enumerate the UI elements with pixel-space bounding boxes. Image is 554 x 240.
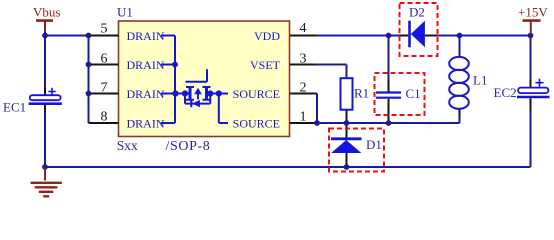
svg-text:2: 2 — [300, 80, 307, 95]
svg-text:DRAIN: DRAIN — [127, 58, 165, 72]
svg-text:VDD: VDD — [254, 29, 280, 43]
svg-text:1: 1 — [300, 110, 307, 125]
svg-text:DRAIN: DRAIN — [127, 29, 165, 43]
svg-text:SOURCE: SOURCE — [233, 87, 280, 101]
svg-text:L1: L1 — [473, 73, 487, 88]
svg-text:8: 8 — [101, 110, 108, 125]
svg-text:Sxx: Sxx — [117, 138, 138, 153]
svg-text:5: 5 — [101, 22, 108, 37]
svg-text:/SOP-8: /SOP-8 — [166, 139, 211, 154]
svg-text:VSET: VSET — [250, 58, 281, 72]
svg-text:C1: C1 — [406, 86, 421, 101]
svg-text:7: 7 — [101, 80, 108, 95]
svg-text:R1: R1 — [354, 86, 369, 101]
svg-text:4: 4 — [300, 21, 307, 36]
svg-text:U1: U1 — [117, 5, 133, 20]
svg-text:DRAIN: DRAIN — [127, 87, 165, 101]
svg-text:SOURCE: SOURCE — [233, 117, 280, 131]
svg-text:3: 3 — [300, 52, 307, 67]
svg-text:EC2: EC2 — [494, 85, 517, 100]
svg-text:D2: D2 — [409, 4, 425, 19]
svg-text:+15V: +15V — [518, 5, 548, 20]
svg-text:DRAIN: DRAIN — [127, 116, 165, 130]
svg-text:6: 6 — [101, 52, 108, 67]
svg-text:Vbus: Vbus — [33, 5, 60, 20]
svg-text:EC1: EC1 — [3, 100, 26, 115]
svg-text:D1: D1 — [366, 137, 382, 152]
